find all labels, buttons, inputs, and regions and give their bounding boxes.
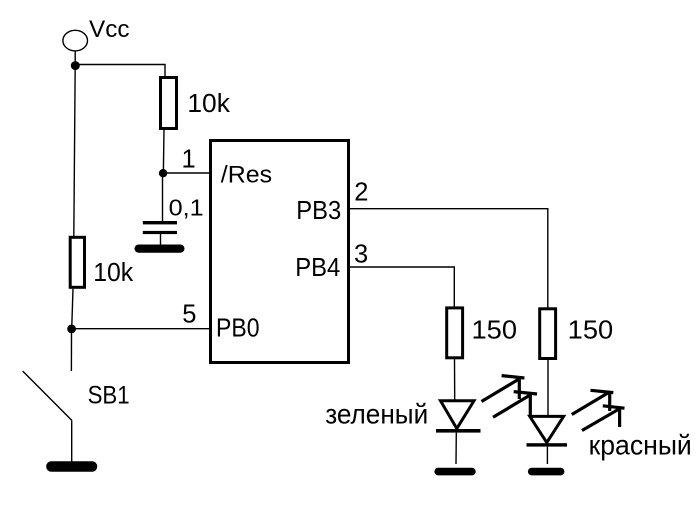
LED VD1 emission arrow 2 [493, 392, 537, 418]
svg-text:2: 2 [354, 178, 368, 206]
capacitor C1 bottom plate [143, 231, 177, 234]
svg-text:150: 150 [568, 314, 614, 344]
svg-text:150: 150 [472, 314, 518, 344]
wire node to capacitor C1 [162, 177, 164, 221]
capacitor C1 top plate [143, 221, 177, 224]
ground under SB1 [46, 461, 97, 471]
wire R2 bottom to node [72, 289, 73, 326]
svg-text:SB1: SB1 [88, 382, 130, 410]
wire node to pin 5 PB0 [72, 328, 210, 330]
wire node to switch SB1 [70, 333, 72, 371]
svg-text:3: 3 [354, 240, 368, 268]
svg-text:0,1: 0,1 [169, 195, 204, 221]
LED VD1 green triangle [441, 401, 475, 429]
node PB0 junction [67, 325, 76, 334]
svg-text:Vcc: Vcc [89, 16, 130, 43]
LED VD2 emission arrow 1 [572, 390, 614, 414]
svg-text:1: 1 [182, 145, 196, 173]
svg-text:5: 5 [182, 301, 196, 329]
wire VD1 to ground [455, 433, 457, 464]
resistor R2 body [70, 237, 84, 287]
svg-text:PB4: PB4 [295, 252, 340, 282]
switch SB1 arm [23, 371, 72, 420]
wire Vcc node down to R2 [74, 66, 75, 237]
svg-text:PB0: PB0 [216, 312, 260, 342]
svg-text:красный: красный [589, 429, 692, 460]
LED VD1 emission arrow 1 [482, 376, 525, 402]
wire node to R1 top [75, 65, 165, 77]
LED VD2 cathode bar [527, 443, 568, 446]
LED VD2 emission arrow 2 [582, 406, 625, 431]
ground under VD2 [528, 468, 565, 476]
resistor R1 body [161, 78, 177, 129]
Vcc terminal circle [63, 30, 88, 51]
ground under C1 [135, 245, 185, 253]
svg-text:PB3: PB3 [296, 195, 341, 225]
resistor R3 body [447, 308, 463, 358]
wire VD2 to ground [546, 447, 548, 464]
wire Vcc circle to node [74, 51, 76, 65]
svg-text:10k: 10k [187, 90, 230, 118]
wire R4 to LED VD2 [547, 359, 549, 416]
node Vcc junction [71, 61, 80, 70]
LED VD1 cathode bar [436, 429, 481, 433]
op-amp U1 microcontroller body [211, 141, 349, 363]
wire R3 to LED VD1 [454, 358, 456, 400]
resistor R4 body [540, 309, 556, 359]
wire pin 2 PB3 to R4 [350, 209, 548, 308]
wire SB1 to ground [71, 420, 73, 463]
svg-text:10k: 10k [93, 259, 133, 287]
svg-text:/Res: /Res [221, 162, 272, 189]
svg-text:зеленый: зеленый [325, 399, 428, 430]
wire C1 to ground [160, 234, 162, 246]
LED VD2 red triangle [530, 416, 564, 442]
ground under VD1 [434, 468, 475, 476]
node reset junction [159, 169, 167, 177]
wire R1 bottom to node [162, 130, 165, 170]
wire node to pin 1 /Res [163, 172, 210, 174]
wire pin 3 PB4 to R3 [350, 267, 454, 307]
